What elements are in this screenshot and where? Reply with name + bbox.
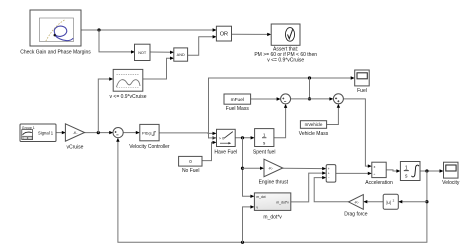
svg-text:PID(s: PID(s xyxy=(142,130,152,135)
wire: Drag force output up to Add input 3 xyxy=(314,178,348,202)
wire: Spent fuel up to sum1 minus input xyxy=(274,106,286,138)
block: Have Fuel switch xyxy=(214,129,237,155)
gain: Engine thrust xyxy=(259,159,289,185)
svg-text:vCruise: vCruise xyxy=(67,144,84,150)
svg-text:1: 1 xyxy=(263,133,266,138)
gain: vCruise xyxy=(65,124,84,151)
wire: J3 down to engine thrust and m_dot input xyxy=(243,138,253,197)
block: m_dot*v subsystem xyxy=(254,193,290,221)
wire: No Fuel constant up to Have Fuel input 3 xyxy=(202,142,215,160)
svg-text:Acceleration: Acceleration xyxy=(365,180,393,186)
wire: sum S0 to PID xyxy=(123,132,138,134)
wire: OR output to Assert input xyxy=(232,33,270,35)
wire: NOT output to AND input 1 xyxy=(150,51,172,53)
wire: J8 left into u-squared (flipped input) xyxy=(400,201,427,203)
svg-text:m_dot*v: m_dot*v xyxy=(263,214,282,220)
wire: J2 up to v-check input xyxy=(98,79,111,133)
block: AND logic xyxy=(174,48,188,61)
node J4 junction at engine thrust branch xyxy=(241,167,244,170)
node J2 junction on vCruise line xyxy=(97,131,100,134)
svg-text:Fuel Mass: Fuel Mass xyxy=(226,106,250,112)
block: Signal Builder (Group 1 / Signal 1) xyxy=(20,124,56,142)
svg-text:Spent fuel: Spent fuel xyxy=(253,149,276,155)
svg-text:m_dot*v: m_dot*v xyxy=(276,200,289,204)
sum S2 (fuel + mVehicle) xyxy=(333,94,343,104)
wire: J9 up to m_dot*v v input xyxy=(243,207,253,242)
svg-text:Group 1: Group 1 xyxy=(22,126,35,130)
svg-text:OR: OR xyxy=(220,32,228,38)
wire: sum1 to sum2 xyxy=(291,98,332,100)
node J3 junction after Have Fuel xyxy=(241,136,244,139)
node J7 junction after integrator xyxy=(425,169,428,172)
wire: u-squared output to Drag force xyxy=(365,201,383,203)
wire: AND output up to OR input 2 xyxy=(188,37,215,55)
block: v <= 0.9*vCruise upper-bound check xyxy=(110,69,147,100)
svg-text:Engine thrust: Engine thrust xyxy=(259,179,289,185)
block: Assert (check assertion) xyxy=(254,24,317,63)
svg-text:Fuel: Fuel xyxy=(357,88,367,94)
svg-text:mFuel: mFuel xyxy=(231,97,244,103)
wire: Add output to Acceleration input 2 xyxy=(336,172,370,174)
svg-text:Velocity Controller: Velocity Controller xyxy=(129,144,170,150)
block: Check Gain and Phase Margins xyxy=(20,10,91,56)
sum S1 (mFuel - spent) xyxy=(281,94,291,104)
wire: v-check output up to AND input 2 xyxy=(143,58,172,79)
wire: PID output to Have Fuel input 1 xyxy=(159,132,215,135)
svg-text:Have Fuel: Have Fuel xyxy=(214,149,237,155)
svg-text:m_dot: m_dot xyxy=(256,195,265,199)
wire: Have Fuel output to Spent fuel xyxy=(235,137,253,139)
block: mVehicle constant xyxy=(299,121,329,137)
wire: sum2 output down to Acceleration input 1 xyxy=(343,99,370,166)
block: OR logic xyxy=(216,26,231,41)
wire: fuel amount line (sum1 out) to Fuel scope and down to Have Fuel control xyxy=(209,78,353,138)
block: Acceleration (divide) xyxy=(365,162,393,186)
svg-text:Vehicle Mass: Vehicle Mass xyxy=(299,131,329,137)
svg-text:AND: AND xyxy=(177,53,185,57)
block: mFuel constant xyxy=(224,94,251,112)
svg-text:+: + xyxy=(328,167,330,171)
svg-text:-K-: -K- xyxy=(73,131,79,135)
node J1 junction on check-gain line xyxy=(97,28,100,31)
wire: Acceleration to integrator xyxy=(386,170,398,171)
block: Add (thrust - m_dot*v - drag) xyxy=(326,165,336,183)
block: velocity integrator 1/s xyxy=(400,162,420,181)
svg-text:Signal 1: Signal 1 xyxy=(38,130,54,135)
block: Spent fuel integrator xyxy=(253,129,276,156)
wire: mVehicle up to sum2 plus input xyxy=(327,106,339,125)
svg-text:-K-: -K- xyxy=(268,167,274,171)
svg-text:NOT: NOT xyxy=(138,51,147,55)
scope: Fuel xyxy=(355,70,370,94)
block: No Fuel constant 0 xyxy=(179,156,202,174)
block: PID Velocity Controller xyxy=(129,124,170,149)
sum S0 (vCruise - v) xyxy=(113,128,123,138)
svg-text:No Fuel: No Fuel xyxy=(182,168,200,174)
block: |u|^2 math function xyxy=(383,194,398,209)
node J9 junction on bottom feedback for v input xyxy=(241,241,244,244)
wire: signal builder to vCruise gain xyxy=(56,132,64,134)
svg-text:x: x xyxy=(374,165,376,169)
wire: J1 down to NOT input xyxy=(99,30,133,52)
wire: m_dot*v output up to Add input 2 xyxy=(291,173,325,202)
svg-text:Check Gain and Phase Margins: Check Gain and Phase Margins xyxy=(20,50,91,56)
wire: mFuel to sum1 xyxy=(251,98,279,100)
wire: J5 down to sum1-sum2 line xyxy=(309,78,311,99)
wire: integrator to Velocity scope xyxy=(420,170,442,172)
svg-text:÷: ÷ xyxy=(373,172,375,176)
wire: Engine thrust output to Add input 1 xyxy=(283,167,325,169)
svg-text:-K-: -K- xyxy=(354,200,360,204)
svg-text:mVehicle: mVehicle xyxy=(305,122,323,127)
svg-text:|u|: |u| xyxy=(386,200,391,205)
node J8 junction at u-squared branch xyxy=(425,200,428,203)
node J6 junction on sum1-sum2 line xyxy=(308,97,311,100)
wire: check-gain output line to OR input 1 xyxy=(81,29,215,31)
node J5 junction on fuel line above sum1 xyxy=(308,76,311,79)
gain: Drag force (flipped) xyxy=(344,195,368,218)
svg-text:v <= 0.9*vCruise: v <= 0.9*vCruise xyxy=(267,57,304,63)
wire: J7 down right side to bottom feedback line xyxy=(118,140,427,243)
svg-text:Drag force: Drag force xyxy=(344,211,368,217)
svg-text:v <= 0.9*vCruise: v <= 0.9*vCruise xyxy=(110,94,147,100)
block: NOT logic xyxy=(135,44,151,60)
svg-text:Velocity: Velocity xyxy=(442,180,460,186)
wire: vCruise gain output to sum S0 xyxy=(85,132,112,134)
scope: Velocity xyxy=(442,162,460,186)
svg-text:> 0: > 0 xyxy=(219,136,224,140)
